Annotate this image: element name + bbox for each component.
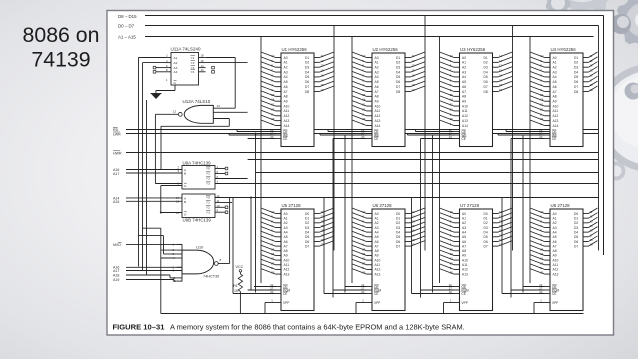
- svg-text:D5: D5: [396, 75, 400, 79]
- svg-text:A8: A8: [553, 249, 557, 253]
- svg-text:D3: D3: [484, 66, 488, 70]
- wire U12A input1 from Y1 rail: [213, 107, 235, 109]
- svg-text:A4: A4: [553, 75, 557, 79]
- svg-text:D6: D6: [484, 240, 488, 244]
- svg-text:D8: D8: [574, 90, 578, 94]
- wire bank select line 1: [248, 159, 599, 161]
- memory U7 27128 body: [460, 209, 493, 311]
- wire RD line: [126, 129, 599, 131]
- U10 input pins: [177, 243, 182, 245]
- svg-text:D6: D6: [305, 240, 309, 244]
- buffer U11A 74LS240 body: [171, 53, 199, 86]
- svg-text:D3: D3: [305, 226, 309, 230]
- svg-text:A12: A12: [284, 114, 290, 118]
- svg-text:D7: D7: [484, 85, 488, 89]
- svg-text:A12: A12: [284, 268, 290, 272]
- svg-text:Y1: Y1: [191, 56, 195, 60]
- svg-text:A1: A1: [284, 61, 288, 65]
- wire U8 CE select: [502, 293, 545, 295]
- U9B output Y3 wire: [215, 211, 225, 213]
- svg-text:A4: A4: [462, 75, 466, 79]
- svg-text:A13: A13: [284, 119, 290, 123]
- svg-text:A3: A3: [553, 70, 557, 74]
- U9B output Y0 wire with junction: [215, 197, 599, 199]
- svg-text:74HCT30: 74HCT30: [203, 275, 219, 279]
- svg-text:U4 HY62256: U4 HY62256: [551, 47, 577, 52]
- svg-text:A0: A0: [553, 212, 557, 216]
- wire M/IO to U10 pin1: [126, 243, 182, 245]
- svg-text:D4: D4: [484, 70, 488, 74]
- white page of figure: [107, 11, 614, 336]
- wire A14 to U9B: [126, 197, 182, 199]
- wire U11A Y1 to U12A: [206, 57, 236, 59]
- svg-text:A2: A2: [462, 221, 466, 225]
- svg-text:A1: A1: [284, 216, 288, 220]
- svg-text:A5: A5: [462, 80, 466, 84]
- svg-text:D2: D2: [305, 61, 309, 65]
- wire U12A input3 wraparound: [213, 118, 229, 120]
- svg-text:A6: A6: [462, 85, 466, 89]
- svg-text:A10: A10: [462, 258, 468, 262]
- svg-text:D3: D3: [574, 226, 578, 230]
- svg-text:A3: A3: [284, 70, 288, 74]
- wire staircase feed lower: [139, 235, 164, 237]
- svg-text:D4: D4: [574, 230, 578, 234]
- wire fan data bus to U2 HY62256: [411, 52, 426, 58]
- U6 27128 address pins: [367, 213, 373, 215]
- U10 input bar: [181, 244, 183, 282]
- wire U8 PGM: [511, 289, 545, 291]
- connector square U11A input A4: [153, 71, 156, 74]
- svg-text:HWR: HWR: [113, 151, 122, 155]
- svg-text:A11: A11: [375, 109, 381, 113]
- wire fan address bus to U2 HY62256: [352, 52, 367, 58]
- svg-text:A1: A1: [375, 61, 379, 65]
- U4 HY62256 address pins: [545, 57, 551, 59]
- svg-text:A4: A4: [462, 230, 466, 234]
- wire data drop column 2: [424, 16, 426, 251]
- svg-text:R1: R1: [233, 284, 238, 288]
- nand U12A body: [184, 105, 213, 123]
- U8 control pins OE PGM CE: [545, 286, 551, 288]
- svg-text:18: 18: [201, 54, 205, 58]
- wire A18 to U10: [126, 274, 170, 276]
- svg-text:A4: A4: [375, 230, 379, 234]
- svg-text:VPP: VPP: [374, 301, 380, 305]
- svg-text:A14: A14: [284, 124, 290, 128]
- wire staircase vertical 2: [163, 236, 165, 254]
- svg-text:D5: D5: [305, 235, 309, 239]
- svg-text:FIGURE 10–31: FIGURE 10–31: [113, 322, 166, 331]
- svg-text:A1: A1: [375, 216, 379, 220]
- svg-text:A10: A10: [375, 104, 381, 108]
- wire U2 WE to write line: [320, 134, 367, 136]
- wire U11A A2 input feed: [143, 62, 166, 64]
- svg-text:A4: A4: [553, 230, 557, 234]
- wire address drop column 4: [529, 37, 531, 284]
- svg-text:RD: RD: [113, 128, 119, 132]
- svg-text:Y3: Y3: [206, 182, 210, 186]
- svg-text:12: 12: [201, 68, 205, 72]
- svg-text:A1: A1: [462, 216, 466, 220]
- wire U8 OE: [523, 286, 545, 288]
- svg-text:D4: D4: [396, 230, 400, 234]
- wire A19 to U10: [126, 279, 174, 281]
- svg-text:D0: D0: [305, 212, 309, 216]
- svg-text:A0: A0: [375, 212, 379, 216]
- svg-text:A11: A11: [462, 109, 468, 113]
- U9A output Y2 wire: [215, 178, 248, 180]
- wire bus D0-D7: [145, 25, 599, 27]
- wire select rail column 4: [510, 139, 512, 298]
- svg-text:D1: D1: [396, 56, 400, 60]
- wire A15 to U9B: [126, 200, 182, 202]
- wire select rail column 3: [420, 139, 422, 298]
- U8 VPP pin: [545, 302, 551, 304]
- svg-text:CE: CE: [374, 137, 378, 141]
- wire U4 WE to write line: [498, 134, 545, 136]
- wire U10 output up to decoders: [229, 198, 231, 264]
- svg-text:A1: A1: [462, 61, 466, 65]
- svg-text:CE: CE: [462, 292, 466, 296]
- svg-text:D3: D3: [305, 66, 309, 70]
- svg-text:A11: A11: [284, 263, 290, 267]
- wire U7 OE: [433, 286, 455, 288]
- wire U3 OE to RD: [416, 131, 455, 133]
- wire data drop column 4: [598, 26, 600, 251]
- svg-text:D2: D2: [305, 221, 309, 225]
- U5 27128 address pins: [276, 213, 282, 215]
- svg-text:A1: A1: [553, 216, 557, 220]
- svg-text:D8: D8: [484, 90, 488, 94]
- U9A G wire: [161, 185, 182, 187]
- wire fan data bus to U7 27128: [498, 208, 513, 214]
- U7 control pins OE PGM CE: [454, 286, 460, 288]
- decoder U9B body: [182, 194, 215, 218]
- svg-text:A17: A17: [113, 269, 119, 273]
- svg-text:A8: A8: [284, 249, 288, 253]
- U7 27128 data pins: [493, 213, 499, 215]
- wire junction rail: [250, 198, 252, 291]
- svg-text:A10: A10: [462, 104, 468, 108]
- svg-text:VPP: VPP: [283, 301, 289, 305]
- svg-text:D2: D2: [484, 61, 488, 65]
- wire U1 WE to write line: [229, 134, 276, 136]
- svg-text:A13: A13: [553, 119, 559, 123]
- wire U11A G to ground: [174, 85, 176, 91]
- wire A16 to U10: [126, 266, 182, 268]
- svg-text:D1: D1: [305, 56, 309, 60]
- svg-text:A5: A5: [375, 80, 379, 84]
- svg-text:A13: A13: [375, 272, 381, 276]
- svg-text:D3: D3: [396, 226, 400, 230]
- resistor R1: [238, 274, 242, 291]
- svg-text:A19: A19: [113, 278, 119, 282]
- svg-text:A3: A3: [375, 226, 379, 230]
- wire HWR line: [126, 152, 599, 154]
- U1 HY62256 data pins: [314, 57, 320, 59]
- wire fan data bus to U1 HY62256: [320, 52, 335, 58]
- svg-text:A3: A3: [462, 226, 466, 230]
- svg-text:A14: A14: [375, 124, 381, 128]
- connector square U11A output Y4: [212, 71, 215, 74]
- wire U11A A1 input feed: [139, 57, 166, 59]
- svg-text:U6 27128: U6 27128: [373, 203, 393, 208]
- svg-text:A4: A4: [284, 230, 288, 234]
- svg-text:D7: D7: [396, 244, 400, 248]
- svg-text:D6: D6: [396, 240, 400, 244]
- wire fan address bus to U8 27128: [530, 208, 545, 214]
- svg-text:A6: A6: [375, 240, 379, 244]
- svg-text:D1: D1: [574, 56, 578, 60]
- svg-text:A12: A12: [375, 268, 381, 272]
- svg-text:D6: D6: [484, 80, 488, 84]
- svg-text:U11A 74LS240: U11A 74LS240: [171, 47, 201, 52]
- svg-text:A0: A0: [553, 56, 557, 60]
- svg-text:A9: A9: [462, 100, 466, 104]
- wire fan address bus to U4 HY62256: [530, 52, 545, 58]
- svg-text:A memory system for the 8086 t: A memory system for the 8086 that contai…: [170, 322, 465, 331]
- svg-text:D2: D2: [574, 61, 578, 65]
- wire U6 PGM: [333, 289, 367, 291]
- svg-text:A2: A2: [462, 66, 466, 70]
- wire U7 VPP to line: [444, 302, 455, 304]
- wire A16 to U9A: [126, 169, 182, 171]
- U5 VPP pin: [276, 302, 282, 304]
- svg-text:D8 – D15: D8 – D15: [118, 14, 137, 19]
- wire U4 OE to RD: [506, 131, 545, 133]
- svg-text:A12: A12: [553, 268, 559, 272]
- svg-text:CE: CE: [283, 137, 287, 141]
- svg-text:A9: A9: [375, 100, 379, 104]
- svg-text:A6: A6: [553, 240, 557, 244]
- U1 HY62256 address pins: [276, 57, 282, 59]
- svg-text:A1 – A15: A1 – A15: [118, 34, 136, 39]
- wire fan data bus to U3 HY62256: [498, 52, 513, 58]
- wire VPP distribution line: [161, 313, 584, 315]
- wire U5 PGM: [248, 289, 276, 291]
- nand U10 74HCT30 body: [182, 250, 214, 274]
- VCC terminal: [239, 270, 242, 273]
- U8 27128 data pins: [583, 213, 589, 215]
- U4 HY62256 data pins: [583, 57, 589, 59]
- memory U8 27128 body: [550, 209, 583, 311]
- svg-text:D6: D6: [396, 80, 400, 84]
- wire rail left C2: [146, 100, 148, 275]
- svg-text:A10: A10: [284, 104, 290, 108]
- svg-text:A4: A4: [284, 75, 288, 79]
- U9A output Y1 wire: [215, 173, 225, 175]
- svg-text:A11: A11: [553, 109, 559, 113]
- memory U3 HY62256 body: [460, 53, 493, 147]
- svg-text:A9: A9: [553, 100, 557, 104]
- svg-text:A8: A8: [284, 95, 288, 99]
- wire U6 VPP to line: [356, 302, 367, 304]
- wire U7 CE select: [412, 293, 455, 295]
- svg-text:Y3: Y3: [206, 210, 210, 214]
- wire fan address bus to U6 27128: [352, 208, 367, 214]
- wire U5 OE: [254, 286, 276, 288]
- svg-text:D5: D5: [574, 235, 578, 239]
- svg-text:A12: A12: [375, 114, 381, 118]
- svg-text:A7: A7: [462, 90, 466, 94]
- svg-text:A10: A10: [553, 104, 559, 108]
- svg-text:CE: CE: [552, 292, 556, 296]
- svg-text:B: B: [184, 172, 186, 176]
- memory U1 HY62256 body: [281, 53, 314, 147]
- U2 control pins OE WE CE: [367, 131, 373, 133]
- svg-text:A3: A3: [553, 226, 557, 230]
- svg-text:D7: D7: [305, 85, 309, 89]
- svg-text:A9: A9: [462, 254, 466, 258]
- svg-text:A0: A0: [284, 56, 288, 60]
- connector square U9B Y2: [225, 206, 228, 209]
- wire address drop column 2: [351, 37, 353, 284]
- svg-text:Y0: Y0: [206, 196, 210, 200]
- U9B G wire: [161, 212, 182, 214]
- wire fan address bus to U1 HY62256: [261, 52, 276, 58]
- svg-text:A18: A18: [113, 274, 119, 278]
- svg-text:A13: A13: [462, 119, 468, 123]
- svg-text:A17: A17: [113, 172, 119, 176]
- svg-text:D3: D3: [396, 66, 400, 70]
- svg-text:D8: D8: [396, 90, 400, 94]
- U1 control pins OE WE CE: [276, 131, 282, 133]
- svg-text:A9: A9: [284, 100, 288, 104]
- wire bus D8-D15: [145, 15, 604, 17]
- svg-text:13: 13: [217, 104, 221, 108]
- U7 VPP pin: [454, 302, 460, 304]
- svg-text:U12A 74LS10: U12A 74LS10: [183, 99, 211, 104]
- wire fan data bus to U5 27128: [320, 208, 335, 214]
- wire U6 CE select: [324, 293, 367, 295]
- wire U2 OE to RD: [328, 131, 367, 133]
- svg-text:D7: D7: [574, 85, 578, 89]
- svg-text:A6: A6: [462, 240, 466, 244]
- svg-text:U1 HY62256: U1 HY62256: [282, 47, 308, 52]
- svg-text:A3: A3: [375, 70, 379, 74]
- wire fan data bus to U8 27128: [589, 208, 598, 214]
- svg-text:A9: A9: [553, 254, 557, 258]
- U11A output pins Y1-Y4: [199, 57, 206, 59]
- decoder U9A body: [182, 166, 215, 190]
- svg-text:A12: A12: [553, 114, 559, 118]
- svg-text:12: 12: [173, 110, 177, 114]
- svg-text:B: B: [184, 200, 186, 204]
- svg-text:A2: A2: [553, 221, 557, 225]
- memory U6 27128 body: [372, 209, 405, 311]
- connector square U9A Y0: [225, 167, 228, 170]
- connector square U11A input A3: [153, 66, 156, 69]
- svg-text:A9: A9: [375, 254, 379, 258]
- svg-text:D4: D4: [305, 70, 309, 74]
- svg-text:13: 13: [176, 200, 180, 204]
- svg-text:A12: A12: [462, 268, 468, 272]
- svg-text:A8: A8: [462, 95, 466, 99]
- wire fan address bus to U3 HY62256: [440, 52, 455, 58]
- svg-text:A10: A10: [284, 258, 290, 262]
- svg-text:D6: D6: [574, 240, 578, 244]
- wire U2 CE to select rail: [333, 138, 367, 140]
- svg-text:A13: A13: [284, 272, 290, 276]
- svg-text:CE: CE: [283, 292, 287, 296]
- svg-text:A6: A6: [553, 85, 557, 89]
- svg-text:D1: D1: [305, 216, 309, 220]
- svg-text:A6: A6: [284, 85, 288, 89]
- wire U8 VPP to line: [534, 302, 545, 304]
- wire R1 to VPP line: [239, 291, 241, 313]
- memory U5 27128 body: [281, 209, 314, 311]
- svg-text:D4: D4: [484, 230, 488, 234]
- svg-text:A5: A5: [462, 235, 466, 239]
- svg-text:U7 27128: U7 27128: [460, 203, 480, 208]
- svg-text:U8 27128: U8 27128: [551, 203, 571, 208]
- svg-text:U9B 74HC139: U9B 74HC139: [183, 218, 212, 223]
- wire A17 to U9A: [126, 172, 182, 174]
- svg-text:A7: A7: [284, 244, 288, 248]
- svg-text:A8: A8: [375, 95, 379, 99]
- U3 HY62256 address pins: [454, 57, 460, 59]
- svg-text:A5: A5: [553, 80, 557, 84]
- svg-text:A13: A13: [375, 119, 381, 123]
- svg-text:U10: U10: [196, 246, 203, 250]
- svg-text:A13: A13: [462, 272, 468, 276]
- U3 control pins OE WE CE: [454, 131, 460, 133]
- svg-text:D2: D2: [484, 221, 488, 225]
- wire address drop column 1: [260, 37, 262, 284]
- U9B output Y2 wire: [215, 206, 225, 208]
- wire select rail2 column 4: [522, 135, 524, 293]
- svg-text:A15: A15: [113, 200, 119, 204]
- svg-text:D8: D8: [305, 90, 309, 94]
- svg-text:A6: A6: [375, 85, 379, 89]
- svg-text:A6: A6: [284, 240, 288, 244]
- svg-text:A3: A3: [284, 226, 288, 230]
- U3 HY62256 data pins: [493, 57, 499, 59]
- U8 27128 address pins: [545, 213, 551, 215]
- svg-text:1K: 1K: [234, 289, 239, 293]
- svg-text:Y2: Y2: [206, 177, 210, 181]
- U5 control pins OE PGM CE: [276, 286, 282, 288]
- svg-text:U5 27128: U5 27128: [282, 203, 302, 208]
- svg-text:VCC: VCC: [235, 265, 243, 269]
- svg-text:D6: D6: [574, 80, 578, 84]
- svg-text:D4: D4: [305, 230, 309, 234]
- svg-text:D7: D7: [396, 85, 400, 89]
- svg-text:Y1: Y1: [206, 201, 210, 205]
- memory U2 HY62256 body: [372, 53, 405, 147]
- svg-text:D5: D5: [574, 75, 578, 79]
- svg-text:A7: A7: [375, 90, 379, 94]
- svg-text:A4: A4: [174, 70, 178, 74]
- wire rail left B: [142, 63, 144, 271]
- wire rail left A: [138, 58, 140, 267]
- wire fan data bus to U4 HY62256: [589, 52, 598, 58]
- svg-text:D3: D3: [484, 226, 488, 230]
- wire select rail2 column1 from LWR: [255, 134, 257, 293]
- svg-text:D0: D0: [574, 212, 578, 216]
- svg-text:A2: A2: [553, 66, 557, 70]
- U7 27128 address pins: [454, 213, 460, 215]
- svg-text:VPP: VPP: [462, 301, 468, 305]
- svg-text:A5: A5: [284, 235, 288, 239]
- svg-text:A11: A11: [553, 263, 559, 267]
- svg-text:A3: A3: [462, 70, 466, 74]
- svg-text:D3: D3: [574, 66, 578, 70]
- wire bus A1-A15: [145, 36, 594, 38]
- wire U10 pin2 feed: [161, 249, 177, 251]
- svg-text:D0: D0: [396, 212, 400, 216]
